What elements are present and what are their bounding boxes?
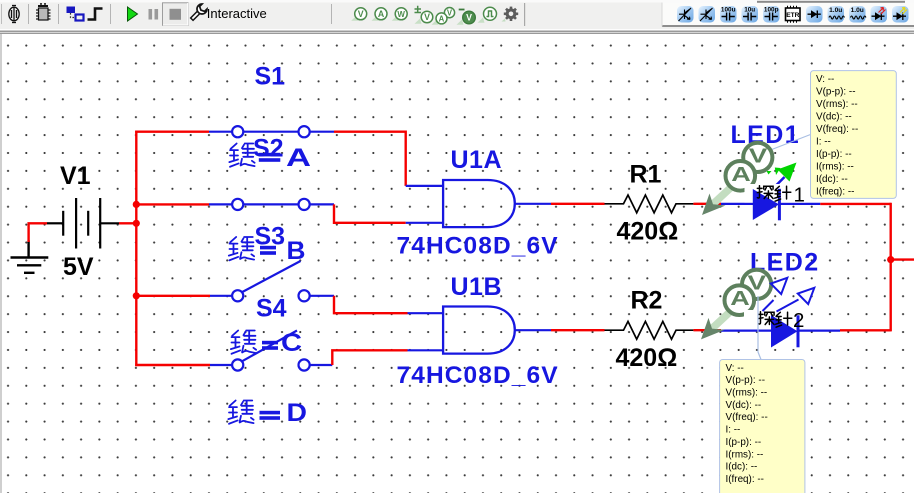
- icon: step waveform: [88, 9, 103, 20]
- LED2 (off): [763, 278, 815, 348]
- separator: [28, 4, 29, 24]
- svg-text:A: A: [730, 287, 750, 310]
- svg-text:R2: R2: [631, 287, 663, 315]
- label key = A (S1): [229, 143, 311, 172]
- switch S1 (closed): [209, 126, 334, 137]
- wire: U1A output to R1: [515, 203, 551, 205]
- button: capacitor 100p: [763, 6, 780, 23]
- svg-text:420Ω: 420Ω: [616, 344, 678, 372]
- junction: rail/row3: [133, 292, 140, 299]
- svg-text:A: A: [731, 163, 751, 186]
- svg-text:I(dc): --: I(dc): --: [816, 174, 848, 185]
- svg-text:U1B: U1B: [451, 273, 503, 301]
- toolbar top highlight: [0, 0, 914, 3]
- icon: run (green play): [128, 7, 138, 21]
- toolbar strip: [0, 0, 914, 29]
- svg-text:A: A: [286, 144, 311, 172]
- LED1 (lit): [753, 163, 797, 221]
- icon: IC chip: [36, 3, 51, 20]
- svg-text:ETR: ETR: [786, 12, 799, 19]
- icon: pause: [149, 9, 159, 20]
- svg-text:V(dc): --: V(dc): --: [726, 400, 762, 411]
- icon: stop (pressed button): [163, 3, 189, 26]
- resistor R1: [605, 195, 694, 213]
- probe button: V with reference (+): [415, 6, 433, 24]
- svg-text:2: 2: [793, 309, 804, 332]
- svg-text:I(freq): --: I(freq): --: [726, 474, 764, 485]
- button: ETR ic: [786, 6, 801, 23]
- svg-text:420Ω: 420Ω: [617, 218, 679, 246]
- switch S2 (closed): [209, 199, 334, 210]
- icon: place component (oval part): [9, 6, 19, 23]
- svg-text:1.0u: 1.0u: [829, 7, 842, 14]
- svg-text:A: A: [439, 14, 445, 23]
- wire: S3 to U1B input A: [334, 296, 408, 313]
- svg-text:V(freq): --: V(freq): --: [816, 124, 858, 135]
- label probe1 background: [745, 184, 806, 203]
- wire: row3 to switch S3: [136, 295, 210, 297]
- probe 2: [701, 270, 771, 340]
- label key = C (S3): [231, 329, 302, 357]
- separator: [110, 4, 111, 24]
- junction: right rail: [887, 256, 894, 263]
- label probe1 (tan zhen 1): [757, 183, 805, 206]
- in-use panel (white): [662, 3, 914, 26]
- svg-text:V(p-p): --: V(p-p): --: [816, 86, 856, 97]
- probe button: -V (active): [457, 10, 476, 25]
- button: capacitor 10u: [742, 6, 759, 23]
- probe button: digital: [478, 7, 497, 22]
- wire: ground to battery negative: [29, 223, 47, 242]
- wire: R1 to LED1: [693, 203, 721, 205]
- svg-text:74HC08D_6V: 74HC08D_6V: [397, 362, 559, 389]
- svg-text:U1A: U1A: [451, 146, 503, 174]
- svg-text:B: B: [287, 237, 306, 265]
- svg-text:I: --: I: --: [726, 425, 741, 436]
- svg-text:V: V: [358, 9, 364, 19]
- svg-text:I: --: I: --: [816, 137, 831, 148]
- wire: S2 to U1A input B: [334, 204, 406, 222]
- button: capacitor 100u: [720, 6, 737, 23]
- wire: right vertical rail: [890, 203, 892, 332]
- button: LED red: [871, 6, 888, 23]
- svg-text:V: --: V: --: [726, 363, 744, 374]
- wire: U1B output to R2: [515, 329, 551, 331]
- svg-text:S3: S3: [255, 223, 286, 251]
- svg-text:V(p-p): --: V(p-p): --: [726, 375, 766, 386]
- button: transistor PNP: [699, 6, 716, 23]
- svg-text:100u: 100u: [721, 7, 736, 14]
- svg-text:100p: 100p: [764, 7, 779, 14]
- wire: LED1 to right rail: [779, 203, 820, 205]
- svg-text:1.0u: 1.0u: [851, 7, 864, 14]
- svg-text:I(rms): --: I(rms): --: [816, 162, 854, 173]
- resistor R2: [605, 321, 694, 339]
- battery V1: [47, 198, 119, 249]
- svg-text:V(rms): --: V(rms): --: [816, 99, 858, 110]
- tooltip connector 1: [764, 135, 811, 153]
- junction: rail/battery: [133, 220, 140, 227]
- button: inductor 1.0u (2): [849, 6, 866, 23]
- wire: row4 to switch S4: [135, 364, 210, 366]
- svg-text:I(dc): --: I(dc): --: [726, 462, 758, 473]
- button: diode: [806, 6, 823, 23]
- wire: battery positive to rail: [119, 222, 136, 224]
- wire: row2 to switch S2: [136, 203, 209, 205]
- svg-text:V: V: [466, 13, 472, 23]
- svg-text:A: A: [378, 9, 385, 19]
- svg-text:R1: R1: [630, 161, 662, 189]
- icon: probe settings gear: [502, 7, 519, 22]
- button: inductor 1.0u: [828, 6, 845, 23]
- label key = B (S2): [229, 237, 306, 265]
- separator: [331, 4, 332, 24]
- LED1 lit arrow shaft: [770, 177, 785, 192]
- probe 1: [702, 143, 772, 215]
- separator (end of probe toolbar): [524, 3, 525, 26]
- label probe2 background: [744, 310, 804, 328]
- separator: [58, 4, 59, 24]
- svg-text:V1: V1: [60, 162, 91, 190]
- icon: wrench: [188, 3, 208, 23]
- wire: row1 to switch S1: [135, 130, 209, 132]
- label key = D: [228, 399, 307, 427]
- svg-text:1: 1: [794, 183, 805, 206]
- svg-text:V(dc): --: V(dc): --: [816, 111, 852, 122]
- svg-text:V: V: [424, 12, 430, 22]
- svg-text:74HC08D_6V: 74HC08D_6V: [397, 233, 559, 260]
- svg-text:I(p-p): --: I(p-p): --: [726, 437, 762, 448]
- toolbar/canvas separator band: [0, 29, 914, 35]
- wire: left vertical rail: [135, 131, 137, 367]
- svg-text:S4: S4: [256, 295, 287, 323]
- AND gate U1B: [443, 307, 515, 354]
- ground: [11, 241, 49, 273]
- probe buttons V A W: [351, 8, 367, 21]
- switch S3 (open): [210, 261, 334, 301]
- svg-text:10u: 10u: [744, 7, 755, 14]
- svg-text:Interactive: Interactive: [207, 6, 267, 21]
- svg-text:S2: S2: [253, 135, 284, 163]
- svg-text:V(rms): --: V(rms): --: [726, 388, 768, 399]
- dark top-right line: [757, 1, 905, 3]
- svg-text:I(rms): --: I(rms): --: [726, 449, 764, 460]
- wire: S1 to U1A input A: [334, 132, 406, 186]
- tooltip 2: [720, 360, 805, 493]
- wire: R2 to LED2: [693, 329, 721, 331]
- switch S4 (open): [210, 331, 332, 371]
- svg-text:S1: S1: [255, 63, 286, 91]
- wire: stub to right edge: [891, 258, 914, 260]
- wire: LED2 to right rail: [798, 330, 840, 332]
- svg-text:I(p-p): --: I(p-p): --: [816, 149, 852, 160]
- button: LED yellow: [892, 6, 909, 23]
- svg-text:V: --: V: --: [816, 74, 834, 85]
- icon: hierarchy blocks: [67, 7, 84, 21]
- svg-text:D: D: [287, 399, 308, 427]
- toolbar grip: [1, 4, 2, 24]
- AND gate U1A: [443, 180, 515, 227]
- junction: rail/row2: [133, 201, 140, 208]
- wire: S4 to U1B input B: [332, 350, 407, 365]
- tooltip 1: [811, 71, 897, 199]
- button: transistor NPN: [677, 6, 694, 23]
- svg-text:5V: 5V: [63, 253, 94, 281]
- label probe2 (tan zhen 2): [758, 309, 804, 332]
- svg-text:I(freq): --: I(freq): --: [816, 187, 854, 198]
- tooltip connector 2: [758, 296, 761, 360]
- svg-text:V(freq): --: V(freq): --: [726, 412, 768, 423]
- svg-text:V: V: [447, 9, 453, 18]
- svg-text:W: W: [397, 10, 405, 19]
- probe button: V and A dual: [432, 8, 455, 25]
